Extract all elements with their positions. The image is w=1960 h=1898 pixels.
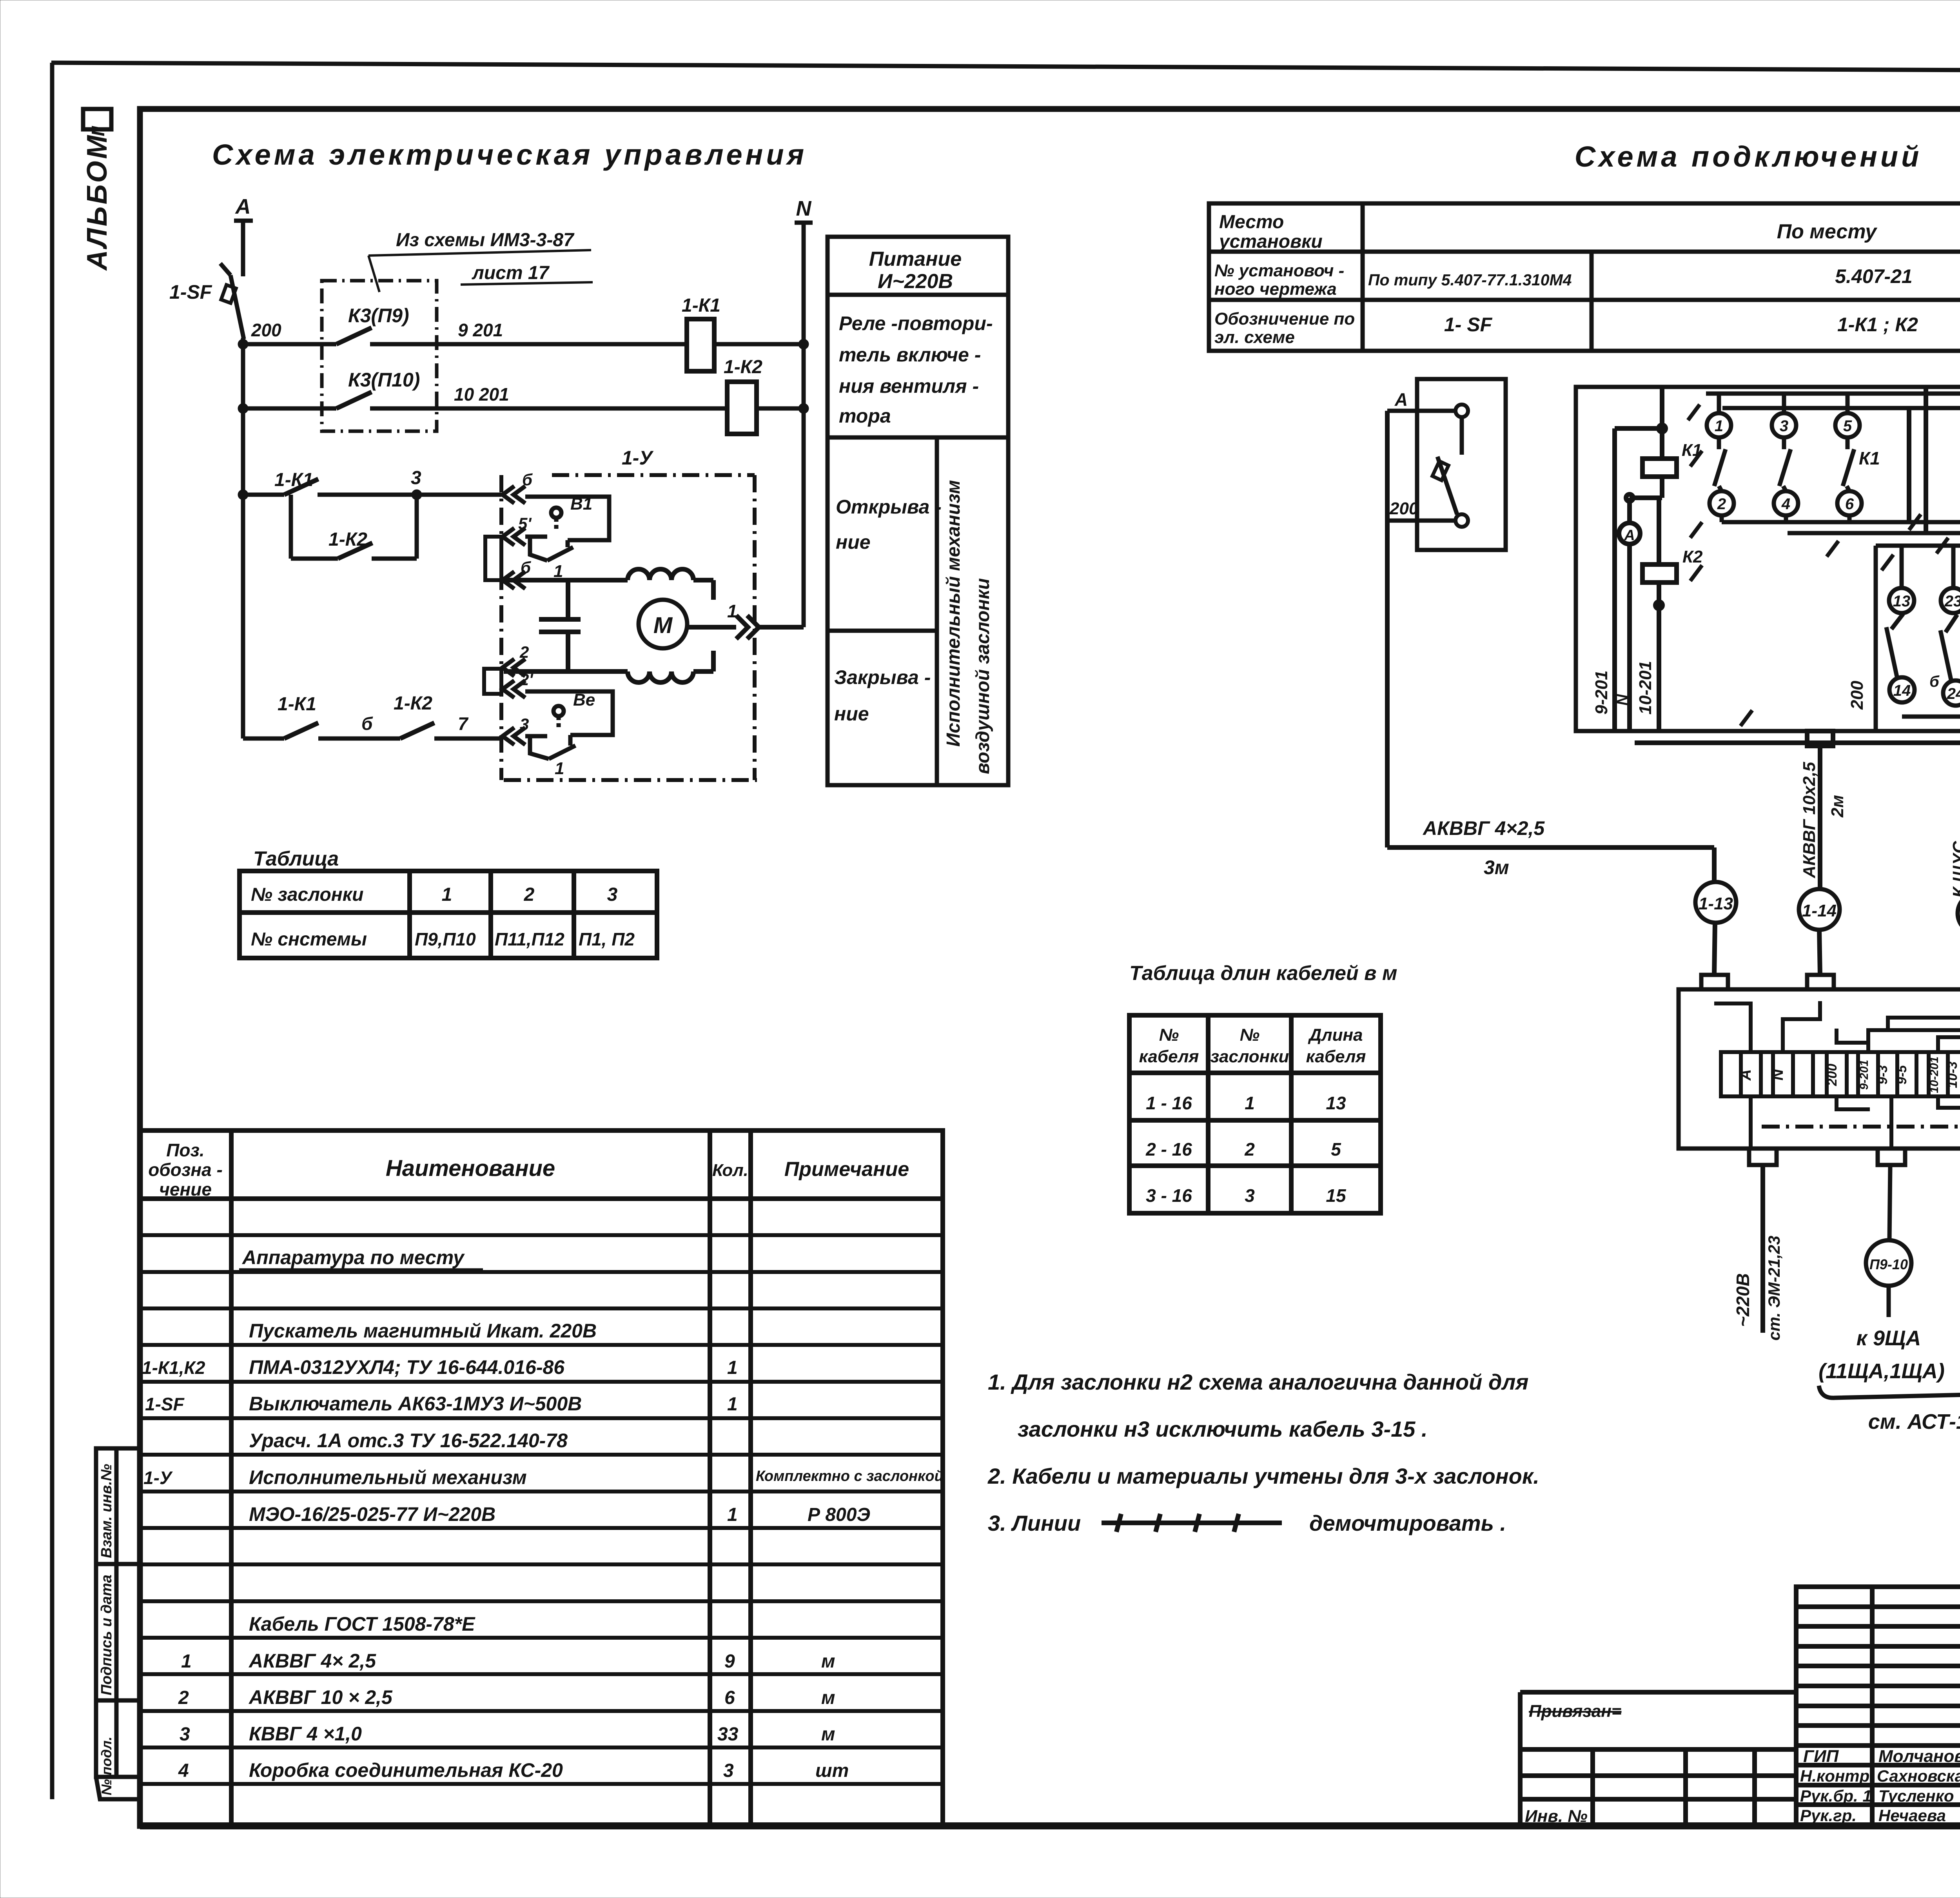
svg-text:Молчанов: Молчанов bbox=[1878, 1747, 1960, 1766]
svg-text:Р 800Э: Р 800Э bbox=[808, 1504, 870, 1525]
right title section bbox=[1796, 1587, 1960, 1825]
svg-text:1-У: 1-У bbox=[143, 1468, 173, 1488]
svg-text:5: 5 bbox=[1843, 417, 1852, 435]
svg-text:Наитенование: Наитенование bbox=[386, 1156, 555, 1181]
svg-text:А: А bbox=[1737, 1069, 1754, 1081]
svg-text:5': 5' bbox=[518, 514, 532, 533]
svg-text:Инв. №: Инв. № bbox=[1525, 1807, 1588, 1826]
svg-text:эл. схеме: эл. схеме bbox=[1214, 328, 1295, 347]
svg-text:Взам. инв.№: Взам. инв.№ bbox=[98, 1464, 115, 1558]
svg-text:б: б bbox=[522, 470, 533, 489]
svg-text:3 - 16: 3 - 16 bbox=[1146, 1185, 1192, 1206]
leader: Из схемы ИМЗ-3-87 лист 17 bbox=[368, 250, 591, 292]
contact 1-K1 row3 bbox=[284, 479, 318, 495]
svg-text:Из схемы ИМ3-3-87: Из схемы ИМ3-3-87 bbox=[396, 230, 575, 250]
svg-text:Питание: Питание bbox=[869, 248, 962, 270]
svg-text:тель включе -: тель включе - bbox=[839, 344, 981, 366]
svg-text:3: 3 bbox=[520, 715, 529, 733]
svg-text:Ве: Ве bbox=[573, 690, 595, 709]
svg-text:3: 3 bbox=[1245, 1185, 1255, 1206]
svg-text:заслонки: заслонки bbox=[1210, 1047, 1289, 1066]
svg-text:лист 17: лист 17 bbox=[472, 263, 550, 283]
svg-text:23: 23 bbox=[1944, 593, 1960, 610]
svg-text:1-К2: 1-К2 bbox=[724, 357, 762, 377]
svg-text:4: 4 bbox=[178, 1760, 189, 1781]
svg-text:15: 15 bbox=[1326, 1185, 1347, 1206]
svg-text:9-201: 9-201 bbox=[1858, 1060, 1871, 1090]
cable АКВВГ 4х2,5 down-right to 1-13 bbox=[1387, 411, 1714, 882]
contact K3(П9) bbox=[336, 328, 372, 344]
svg-text:По месту: По месту bbox=[1777, 220, 1878, 243]
svg-text:Кабель ГОСТ 1508-78*Е: Кабель ГОСТ 1508-78*Е bbox=[249, 1613, 475, 1635]
svg-text:№ подл.: № подл. bbox=[98, 1737, 114, 1795]
svg-text:Закрыва -: Закрыва - bbox=[834, 666, 931, 688]
cable circle 1-13 bbox=[1695, 882, 1736, 923]
svg-text:заслонки н3 исключить кабел: заслонки н3 исключить кабель 3-15 . bbox=[1018, 1417, 1428, 1441]
svg-text:Исполнительный механизм: Исполнительный механизм bbox=[249, 1466, 527, 1488]
svg-text:Таблица длин кабелей в м: Таблица длин кабелей в м bbox=[1129, 962, 1397, 985]
svg-text:1: 1 bbox=[727, 1394, 738, 1415]
svg-text:кабеля: кабеля bbox=[1306, 1047, 1366, 1066]
svg-text:Примечание: Примечание bbox=[784, 1158, 909, 1181]
svg-text:3: 3 bbox=[607, 884, 618, 905]
svg-text:К1: К1 bbox=[1859, 448, 1880, 468]
svg-text:АКВВГ 10х2,5: АКВВГ 10х2,5 bbox=[1800, 762, 1819, 878]
svg-text:К3(П9): К3(П9) bbox=[348, 305, 409, 327]
svg-text:3: 3 bbox=[1780, 417, 1788, 435]
svg-text:к 9ЩА: к 9ЩА bbox=[1857, 1326, 1921, 1350]
svg-text:1: 1 bbox=[727, 1357, 738, 1378]
svg-text:1-SF: 1-SF bbox=[145, 1394, 185, 1414]
svg-text:9-201: 9-201 bbox=[1592, 670, 1611, 715]
svg-text:3: 3 bbox=[180, 1724, 190, 1745]
svg-text:№ снстемы: № снстемы bbox=[251, 929, 367, 950]
svg-text:9 201: 9 201 bbox=[458, 320, 503, 340]
svg-text:3м: 3м bbox=[1484, 856, 1509, 878]
svg-text:1: 1 bbox=[1715, 417, 1723, 435]
svg-text:Н.контр.: Н.контр. bbox=[1800, 1767, 1874, 1785]
svg-text:МЭО-16/25-025-77 И~220В: МЭО-16/25-025-77 И~220В bbox=[249, 1503, 495, 1525]
svg-text:Место: Место bbox=[1219, 212, 1284, 232]
row3 with 1-K1 contact and bypass 1-K2 bbox=[240, 492, 501, 559]
svg-text:А: А bbox=[1624, 527, 1635, 544]
svg-text:см. АСТ-10, АСТ-4: см. АСТ-10, АСТ-4 bbox=[1868, 1410, 1960, 1433]
album label vertical bbox=[82, 109, 113, 271]
second bottom edge bbox=[1635, 730, 1960, 743]
wire: A line down bbox=[241, 338, 245, 739]
svg-text:демочтировать .: демочтировать . bbox=[1309, 1511, 1506, 1535]
svg-text:АКВВГ 10 × 2,5: АКВВГ 10 × 2,5 bbox=[248, 1686, 393, 1708]
svg-text:№ установоч -: № установоч - bbox=[1214, 261, 1344, 280]
lower group circles 13..53 / 14..54 bbox=[1886, 546, 1960, 707]
svg-text:Схема электрическая управлен: Схема электрическая управления bbox=[212, 138, 807, 171]
svg-text:1: 1 bbox=[181, 1651, 192, 1672]
contact 1-K2 bypass bbox=[338, 543, 372, 559]
local switch box with A and 200 bbox=[1417, 379, 1506, 550]
motor output wire with >> bbox=[687, 615, 804, 639]
svg-text:Открыва -: Открыва - bbox=[836, 496, 942, 518]
svg-text:А: А bbox=[1394, 389, 1408, 410]
svg-text:Комплектно с заслонкой: Комплектно с заслонкой bbox=[756, 1468, 944, 1484]
svg-text:1: 1 bbox=[442, 884, 452, 905]
svg-text:К ЩУС: К ЩУС bbox=[1949, 840, 1960, 898]
svg-text:воздушной заслонки: воздушной заслонки bbox=[973, 578, 993, 774]
svg-text:ние: ние bbox=[836, 531, 871, 553]
svg-text:б: б bbox=[1929, 673, 1940, 690]
brace bbox=[1819, 1380, 1960, 1398]
svg-text:1-У: 1-У bbox=[622, 447, 654, 469]
svg-text:Коробка соединительная КС-20: Коробка соединительная КС-20 bbox=[249, 1759, 563, 1781]
svg-text:7: 7 bbox=[458, 713, 469, 734]
svg-text:2 - 16: 2 - 16 bbox=[1145, 1139, 1192, 1159]
svg-text:б: б bbox=[521, 558, 531, 577]
svg-text:1-13: 1-13 bbox=[1699, 894, 1733, 913]
capacitor bbox=[539, 580, 581, 671]
K3 dash-dot box bbox=[322, 281, 437, 431]
svg-text:Схема подключений: Схема подключений bbox=[1575, 140, 1922, 173]
svg-text:10-3: 10-3 bbox=[1945, 1062, 1960, 1088]
svg-text:3. Линии: 3. Линии bbox=[988, 1511, 1081, 1535]
svg-text:2: 2 bbox=[524, 884, 535, 905]
svg-text:9: 9 bbox=[724, 1651, 735, 1672]
terminal circles group 1: 1 3 5 / 2 4 6 bbox=[1707, 413, 1862, 515]
top table (Место установки) bbox=[1209, 203, 1960, 351]
cable circles 1-14 1-15 1-16 bbox=[1799, 889, 1840, 930]
svg-text:Исполнительный механизм: Исполнительный механизм bbox=[943, 480, 964, 747]
linkage bracket bottom bbox=[484, 669, 501, 694]
top buses bbox=[1706, 394, 1960, 416]
wire row2 bbox=[240, 405, 807, 412]
svg-text:N: N bbox=[1614, 694, 1631, 706]
svg-text:Рук.гр.: Рук.гр. bbox=[1800, 1806, 1857, 1825]
svg-text:№: № bbox=[1240, 1025, 1259, 1045]
svg-text:Нечаева: Нечаева bbox=[1878, 1806, 1946, 1825]
svg-text:2м: 2м bbox=[1828, 795, 1847, 818]
svg-text:И~220В: И~220В bbox=[878, 270, 953, 293]
svg-text:200: 200 bbox=[251, 320, 281, 340]
svg-text:ПМА-0312УХЛ4; ТУ 16-644.016-8: ПМА-0312УХЛ4; ТУ 16-644.016-86 bbox=[249, 1356, 565, 1378]
switch 1-SF bbox=[220, 263, 244, 339]
svg-text:9-3: 9-3 bbox=[1875, 1065, 1890, 1084]
svg-text:К3(П10): К3(П10) bbox=[348, 369, 420, 391]
svg-text:1-К1: 1-К1 bbox=[274, 470, 313, 490]
svg-text:2: 2 bbox=[1244, 1139, 1255, 1159]
svg-text:1 - 16: 1 - 16 bbox=[1146, 1093, 1192, 1113]
terminal strip bbox=[1721, 1052, 1960, 1096]
svg-text:6: 6 bbox=[1845, 495, 1854, 513]
linkage bracket top bbox=[485, 537, 501, 580]
panel interior: relay K1 coil branch bbox=[1615, 387, 1677, 729]
svg-text:2: 2 bbox=[519, 643, 529, 661]
svg-text:ст. ЭМ-21,23: ст. ЭМ-21,23 bbox=[1765, 1236, 1783, 1341]
svg-text:9-5: 9-5 bbox=[1895, 1065, 1909, 1084]
svg-text:1. Для заслонки н2 схема а: 1. Для заслонки н2 схема аналогична данн… bbox=[988, 1370, 1528, 1394]
svg-text:1-К1: 1-К1 bbox=[682, 295, 720, 316]
motor top line with winding bbox=[504, 569, 713, 600]
svg-text:1-К2: 1-К2 bbox=[394, 693, 432, 714]
coil 1-K1 bbox=[687, 319, 714, 371]
svg-text:3: 3 bbox=[411, 468, 421, 488]
svg-text:№ заслонки: № заслонки bbox=[251, 884, 363, 905]
svg-text:По типу 5.407-77.1.310М4: По типу 5.407-77.1.310М4 bbox=[1368, 271, 1572, 289]
svg-text:Сахновская: Сахновская bbox=[1877, 1767, 1960, 1785]
svg-text:~220В: ~220В bbox=[1733, 1273, 1753, 1327]
svg-text:№: № bbox=[1159, 1025, 1179, 1045]
contact 1-K1 row4 bbox=[284, 723, 318, 739]
svg-text:Поз.: Поз. bbox=[166, 1140, 204, 1160]
svg-text:П11,П12: П11,П12 bbox=[495, 929, 564, 949]
svg-text:Кол.: Кол. bbox=[712, 1161, 748, 1180]
svg-text:АЛЬБОМ: АЛЬБОМ bbox=[82, 133, 113, 271]
mid connecting buses bbox=[1722, 515, 1960, 533]
svg-text:1-К1: 1-К1 bbox=[278, 694, 316, 715]
stubs below strip and dash-dot bbox=[1751, 1096, 1960, 1149]
svg-text:4: 4 bbox=[1781, 495, 1790, 513]
svg-text:2: 2 bbox=[178, 1688, 189, 1708]
contact K3(П10) bbox=[336, 392, 372, 408]
svg-text:5: 5 bbox=[1331, 1139, 1341, 1159]
svg-text:Длина: Длина bbox=[1307, 1025, 1363, 1045]
svg-text:Рук.бр. 1: Рук.бр. 1 bbox=[1800, 1787, 1872, 1805]
svg-text:(11ЩА,1ЩА): (11ЩА,1ЩА) bbox=[1818, 1359, 1945, 1383]
relay K2 coil branch bbox=[1642, 498, 1677, 729]
svg-text:Реле -повтори-: Реле -повтори- bbox=[839, 312, 993, 334]
lower contact group box bbox=[1876, 546, 1960, 729]
svg-text:м: м bbox=[821, 1688, 835, 1708]
row4 bottom series contacts bbox=[243, 737, 501, 741]
svg-text:Обозничение по: Обозничение по bbox=[1214, 309, 1355, 328]
cable 1-14 from panel bbox=[1807, 731, 1833, 889]
svg-text:ние: ние bbox=[834, 703, 869, 725]
svg-text:6: 6 bbox=[724, 1688, 735, 1708]
svg-text:М: М bbox=[653, 613, 673, 638]
svg-text:1: 1 bbox=[727, 1504, 738, 1525]
svg-text:14: 14 bbox=[1893, 682, 1911, 699]
svg-text:Аппаратура по месту: Аппаратура по месту bbox=[241, 1247, 465, 1268]
svg-text:Выключатель АК63-1МУ3 И~500: Выключатель АК63-1МУ3 И~500В bbox=[249, 1393, 582, 1415]
svg-text:1- SF: 1- SF bbox=[1444, 314, 1493, 336]
svg-text:Урасч. 1А отс.3 ТУ 16-52: Урасч. 1А отс.3 ТУ 16-522.140-78 bbox=[249, 1430, 568, 1452]
svg-text:10 201: 10 201 bbox=[454, 384, 509, 405]
svg-text:А: А bbox=[235, 195, 251, 218]
left margin strip bbox=[96, 1448, 141, 1799]
svg-text:1-К1,К2: 1-К1,К2 bbox=[142, 1357, 205, 1378]
svg-text:N: N bbox=[1769, 1069, 1786, 1080]
svg-text:АКВВГ 4× 2,5: АКВВГ 4× 2,5 bbox=[248, 1650, 376, 1672]
svg-text:кабеля: кабеля bbox=[1139, 1047, 1199, 1066]
svg-text:1-SF: 1-SF bbox=[169, 281, 212, 303]
svg-text:ного чертежа: ного чертежа bbox=[1214, 279, 1337, 299]
limit switch Ве box bbox=[525, 691, 613, 759]
svg-text:чение: чение bbox=[159, 1179, 212, 1199]
lower-left attach block bbox=[1520, 1692, 1796, 1825]
actuator 1-У dash-dot boundary bbox=[501, 475, 757, 780]
svg-text:24: 24 bbox=[1947, 685, 1960, 702]
svg-text:м: м bbox=[821, 1651, 835, 1672]
svg-text:1-К2: 1-К2 bbox=[328, 529, 367, 550]
svg-text:б: б bbox=[361, 713, 373, 734]
svg-text:обозна -: обозна - bbox=[148, 1159, 223, 1180]
svg-text:3: 3 bbox=[723, 1760, 734, 1781]
svg-text:П9-10: П9-10 bbox=[1869, 1256, 1908, 1272]
svg-text:шт: шт bbox=[815, 1760, 849, 1781]
svg-text:13: 13 bbox=[1326, 1093, 1346, 1113]
svg-text:ГИП: ГИП bbox=[1803, 1747, 1839, 1766]
svg-text:П9,П10: П9,П10 bbox=[415, 929, 476, 949]
svg-text:1-14: 1-14 bbox=[1802, 901, 1837, 920]
svg-text:10-201: 10-201 bbox=[1636, 661, 1655, 715]
svg-text:К2: К2 bbox=[1682, 547, 1703, 566]
svg-text:м: м bbox=[821, 1724, 835, 1745]
svg-text:13: 13 bbox=[1893, 593, 1911, 610]
motor M bbox=[639, 600, 687, 648]
svg-text:ния вентиля -: ния вентиля - bbox=[839, 375, 979, 397]
svg-text:1: 1 bbox=[727, 601, 737, 621]
wire row1 bbox=[240, 341, 807, 347]
svg-text:установки: установки bbox=[1218, 231, 1323, 252]
svg-text:В1: В1 bbox=[570, 494, 592, 514]
svg-text:200: 200 bbox=[1847, 680, 1867, 710]
node A bbox=[234, 195, 253, 276]
svg-text:33: 33 bbox=[717, 1724, 739, 1745]
svg-text:200: 200 bbox=[1389, 499, 1419, 518]
contact 1-K2 row4 bbox=[400, 723, 434, 739]
svg-text:2: 2 bbox=[1717, 495, 1726, 513]
svg-text:N: N bbox=[796, 197, 812, 220]
svg-text:АКВВГ 4×2,5: АКВВГ 4×2,5 bbox=[1422, 817, 1545, 839]
svg-text:200: 200 bbox=[1825, 1064, 1840, 1087]
svg-text:Привязан=: Привязан= bbox=[1529, 1702, 1622, 1721]
motor bottom line with winding bbox=[504, 651, 713, 682]
demount slashes bbox=[1688, 363, 1960, 726]
svg-text:5.407-21: 5.407-21 bbox=[1835, 265, 1912, 287]
cable ~220В bbox=[1760, 1165, 1765, 1333]
upper K2 group enclosure bbox=[1909, 387, 1960, 533]
svg-text:Таблица: Таблица bbox=[253, 847, 339, 870]
svg-text:Пускатель магнитный Икат. 22: Пускатель магнитный Икат. 220В bbox=[249, 1320, 597, 1342]
svg-text:2. Кабели и материалы учтен: 2. Кабели и материалы учтены для 3-х зас… bbox=[987, 1464, 1539, 1488]
svg-text:10-201: 10-201 bbox=[1928, 1056, 1941, 1093]
П9-10 lamp bbox=[1866, 1165, 1911, 1317]
svg-text:тора: тора bbox=[839, 405, 891, 427]
chevron connectors on left boundary bbox=[503, 486, 525, 745]
svg-text:П1, П2: П1, П2 bbox=[579, 929, 635, 949]
svg-text:КВВГ 4 ×1,0: КВВГ 4 ×1,0 bbox=[249, 1723, 362, 1745]
svg-text:1-К1 ; К2: 1-К1 ; К2 bbox=[1837, 314, 1918, 336]
svg-text:1: 1 bbox=[1245, 1093, 1255, 1113]
junction box 1-СК4 bbox=[1679, 975, 1960, 1165]
limit switch B1 box bbox=[525, 497, 609, 561]
svg-text:1: 1 bbox=[555, 759, 564, 778]
svg-text:Тусленко: Тусленко bbox=[1878, 1787, 1954, 1805]
jumper nest above strip bbox=[1714, 1001, 1960, 1052]
coil 1-K2 bbox=[727, 382, 757, 434]
svg-text:Подпись и дата: Подпись и дата bbox=[98, 1575, 115, 1695]
